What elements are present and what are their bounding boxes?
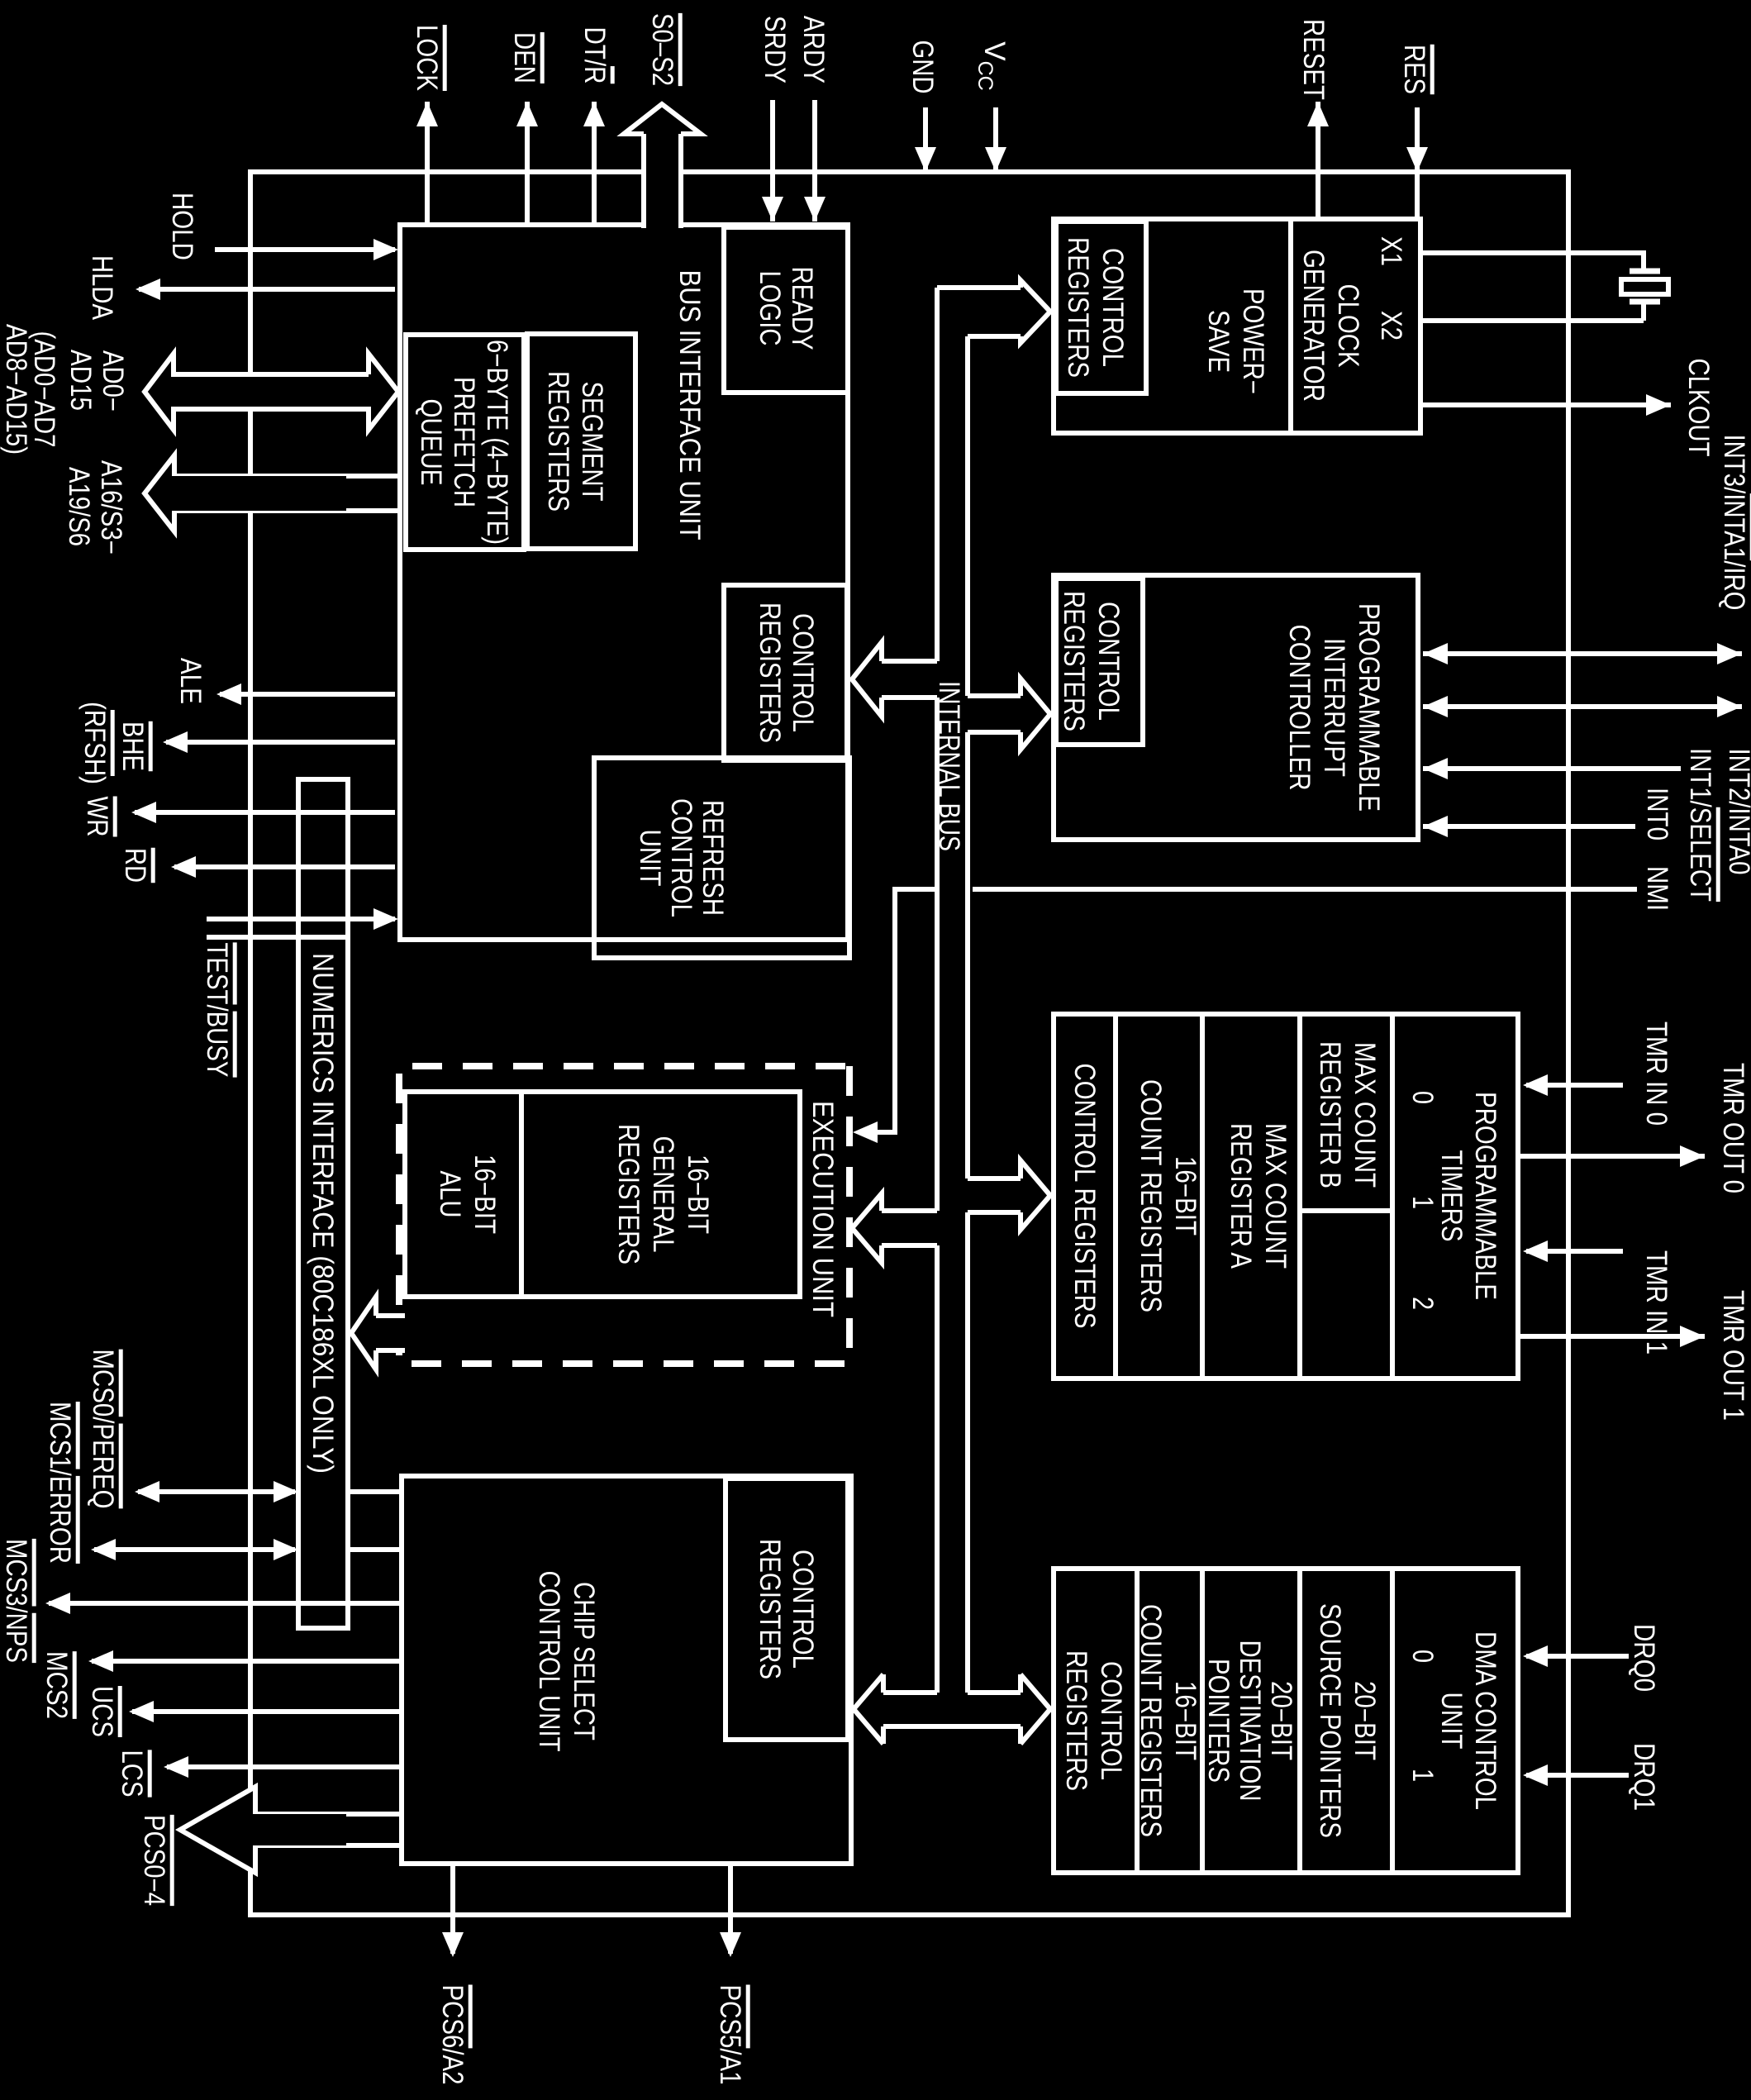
- svg-text:ARDY: ARDY: [797, 16, 830, 83]
- svg-text:LOCK: LOCK: [411, 25, 443, 91]
- svg-text:BUS INTERFACE UNIT: BUS INTERFACE UNIT: [673, 270, 706, 540]
- svg-text:POINTERS: POINTERS: [1202, 1659, 1235, 1783]
- svg-text:6−BYTE (4−BYTE): 6−BYTE (4−BYTE): [481, 340, 513, 545]
- svg-text:CONTROL: CONTROL: [1095, 1661, 1127, 1780]
- svg-text:AD0−: AD0−: [97, 350, 129, 412]
- svg-text:UCS: UCS: [86, 1686, 118, 1737]
- svg-text:SEGMENT: SEGMENT: [576, 382, 608, 502]
- svg-text:HLDA: HLDA: [86, 255, 118, 321]
- svg-text:PROGRAMMABLE: PROGRAMMABLE: [1353, 603, 1385, 812]
- svg-text:BHE: BHE: [117, 721, 149, 771]
- svg-text:ALE: ALE: [174, 658, 207, 704]
- svg-text:TMR IN 1: TMR IN 1: [1640, 1250, 1672, 1355]
- svg-text:REGISTERS: REGISTERS: [1060, 1650, 1092, 1791]
- svg-text:CONTROL: CONTROL: [787, 1550, 819, 1669]
- svg-text:REGISTERS: REGISTERS: [1058, 591, 1090, 731]
- svg-text:1: 1: [1406, 1196, 1439, 1209]
- svg-text:EXECUTION UNIT: EXECUTION UNIT: [807, 1101, 839, 1317]
- svg-text:INT0: INT0: [1641, 788, 1673, 840]
- svg-text:CONTROL UNIT: CONTROL UNIT: [533, 1571, 565, 1752]
- svg-text:PCS0−4: PCS0−4: [138, 1815, 170, 1906]
- svg-text:DRQ1: DRQ1: [1628, 1743, 1660, 1811]
- svg-text:INT2/INTA0: INT2/INTA0: [1723, 749, 1751, 875]
- svg-text:CONTROLLER: CONTROLLER: [1283, 625, 1316, 791]
- svg-text:INT3/INTA1/IRQ: INT3/INTA1/IRQ: [1718, 435, 1750, 611]
- svg-text:MAX COUNT: MAX COUNT: [1259, 1123, 1292, 1269]
- svg-text:PROGRAMMABLE: PROGRAMMABLE: [1469, 1092, 1501, 1300]
- svg-text:DMA CONTROL: DMA CONTROL: [1469, 1631, 1501, 1810]
- svg-text:REGISTERS: REGISTERS: [754, 1539, 786, 1679]
- svg-text:CHIP SELECT: CHIP SELECT: [568, 1582, 600, 1740]
- svg-text:(RFSH): (RFSH): [79, 702, 111, 784]
- svg-text:PCS6/A2: PCS6/A2: [436, 1985, 469, 2085]
- svg-text:LOGIC: LOGIC: [754, 271, 786, 346]
- svg-text:ALU: ALU: [434, 1171, 466, 1218]
- svg-text:RESET: RESET: [1297, 19, 1330, 100]
- svg-text:MCS0/PEREQ: MCS0/PEREQ: [87, 1350, 119, 1509]
- svg-text:TMR IN 0: TMR IN 0: [1640, 1021, 1672, 1126]
- svg-text:REGISTERS: REGISTERS: [754, 602, 786, 743]
- svg-text:REGISTERS: REGISTERS: [542, 371, 574, 512]
- svg-text:0: 0: [1406, 1650, 1439, 1663]
- svg-text:DEN: DEN: [508, 32, 540, 83]
- svg-text:RD: RD: [119, 848, 151, 883]
- svg-text:A16/S3−: A16/S3−: [95, 460, 127, 555]
- svg-text:TMR OUT 0: TMR OUT 0: [1717, 1063, 1749, 1193]
- svg-text:COUNT REGISTERS: COUNT REGISTERS: [1135, 1604, 1167, 1837]
- svg-text:INTERRUPT: INTERRUPT: [1318, 638, 1350, 777]
- svg-text:WR: WR: [81, 797, 113, 837]
- svg-text:LCS: LCS: [116, 1750, 148, 1798]
- svg-text:RES: RES: [1398, 45, 1430, 94]
- svg-text:1: 1: [1406, 1769, 1439, 1782]
- svg-text:SRDY: SRDY: [759, 16, 791, 83]
- svg-text:TEST/BUSY: TEST/BUSY: [201, 943, 233, 1078]
- svg-text:CONTROL: CONTROL: [665, 798, 697, 917]
- svg-text:INT1/SELECT: INT1/SELECT: [1684, 748, 1716, 902]
- svg-text:UNIT: UNIT: [1435, 1693, 1468, 1750]
- svg-text:SAVE: SAVE: [1202, 310, 1235, 373]
- svg-text:REGISTER B: REGISTER B: [1314, 1041, 1346, 1188]
- svg-text:GENERATOR: GENERATOR: [1297, 250, 1330, 402]
- svg-text:MAX COUNT: MAX COUNT: [1349, 1042, 1381, 1188]
- svg-text:CONTROL: CONTROL: [1097, 248, 1129, 367]
- svg-text:UNIT: UNIT: [634, 830, 666, 887]
- svg-text:INTERNAL BUS: INTERNAL BUS: [933, 681, 965, 851]
- svg-text:SOURCE POINTERS: SOURCE POINTERS: [1314, 1603, 1346, 1838]
- svg-text:PREFETCH: PREFETCH: [448, 377, 480, 507]
- svg-text:X1: X1: [1375, 236, 1407, 266]
- svg-text:REFRESH: REFRESH: [697, 800, 729, 916]
- svg-text:S0–S2: S0–S2: [646, 13, 678, 86]
- svg-text:16−BIT: 16−BIT: [1169, 1156, 1201, 1236]
- svg-text:HOLD: HOLD: [166, 193, 198, 260]
- svg-text:PCS5/A1: PCS5/A1: [714, 1985, 746, 2085]
- svg-text:NMI: NMI: [1641, 866, 1673, 911]
- svg-text:AD8−AD15): AD8−AD15): [0, 324, 32, 455]
- svg-text:MCS1/ERROR: MCS1/ERROR: [44, 1402, 76, 1564]
- svg-text:NUMERICS INTERFACE (80C186XL O: NUMERICS INTERFACE (80C186XL ONLY): [307, 953, 339, 1474]
- svg-text:16−BIT: 16−BIT: [469, 1155, 501, 1234]
- svg-text:CONTROL REGISTERS: CONTROL REGISTERS: [1068, 1064, 1101, 1329]
- svg-text:AD15: AD15: [64, 350, 97, 411]
- svg-text:TMR OUT 1: TMR OUT 1: [1717, 1290, 1749, 1421]
- svg-text:GND: GND: [906, 40, 939, 94]
- svg-text:0: 0: [1406, 1091, 1439, 1104]
- svg-text:2: 2: [1406, 1297, 1439, 1310]
- svg-text:CONTROL: CONTROL: [787, 613, 819, 732]
- svg-text:READY: READY: [786, 267, 818, 350]
- svg-text:CLKOUT: CLKOUT: [1682, 359, 1715, 457]
- svg-text:X2: X2: [1375, 311, 1407, 340]
- svg-text:POWER−: POWER−: [1237, 288, 1269, 394]
- svg-text:CLOCK: CLOCK: [1332, 284, 1364, 368]
- svg-text:DRQ0: DRQ0: [1628, 1624, 1660, 1692]
- svg-text:GENERAL: GENERAL: [647, 1136, 679, 1253]
- svg-text:REGISTERS: REGISTERS: [1062, 237, 1094, 378]
- svg-text:QUEUE: QUEUE: [415, 399, 447, 486]
- svg-text:20−BIT: 20−BIT: [1265, 1681, 1297, 1760]
- svg-text:A19/S6: A19/S6: [63, 467, 95, 546]
- svg-text:CONTROL: CONTROL: [1092, 602, 1125, 721]
- svg-text:DESTINATION: DESTINATION: [1234, 1640, 1266, 1802]
- svg-text:COUNT REGISTERS: COUNT REGISTERS: [1135, 1079, 1167, 1312]
- svg-text:16−BIT: 16−BIT: [1169, 1681, 1201, 1760]
- svg-text:REGISTER A: REGISTER A: [1225, 1123, 1257, 1269]
- svg-text:16−BIT: 16−BIT: [682, 1155, 714, 1234]
- svg-text:DT/R: DT/R: [578, 27, 611, 84]
- svg-text:REGISTERS: REGISTERS: [612, 1124, 645, 1264]
- svg-text:MCS3/NPS: MCS3/NPS: [0, 1539, 32, 1663]
- svg-text:MCS2: MCS2: [40, 1651, 73, 1719]
- svg-text:20−BIT: 20−BIT: [1349, 1681, 1381, 1760]
- svg-text:TIMERS: TIMERS: [1435, 1150, 1468, 1242]
